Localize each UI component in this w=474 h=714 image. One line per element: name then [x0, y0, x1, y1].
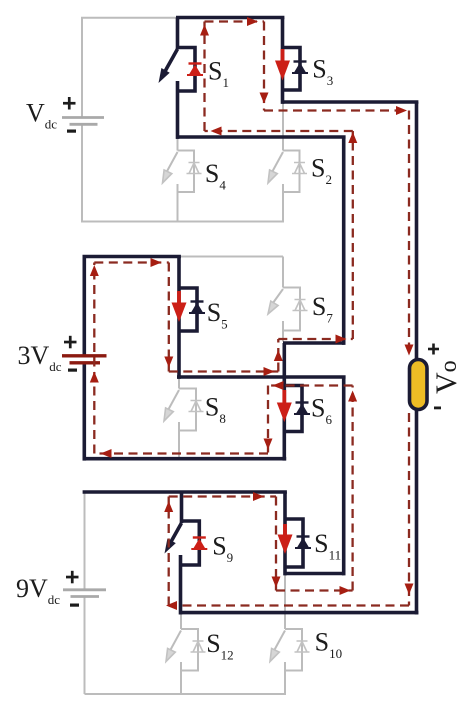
wire battery Vdc positive rail (gray) — [82, 18, 178, 118]
current path: leftwards above A3 — [169, 604, 409, 606]
current path: down right rail to load — [408, 111, 410, 357]
diode D9 of S9 (red, conducting) — [191, 538, 207, 550]
transistor S3 leg — [281, 18, 285, 104]
current path: up through battery 3Vdc — [93, 263, 95, 454]
arrow up beside S9 — [164, 501, 173, 512]
arrow down between S1 and S3 — [260, 93, 269, 104]
conduction arrow on S11 (red, downward) — [278, 524, 293, 554]
load minus sign — [434, 407, 441, 410]
diode D6 of S6 (navy) — [294, 403, 310, 415]
arrow right on A2 — [264, 367, 275, 376]
wire battery 9Vdc positive rail (gray) — [84, 492, 86, 590]
current path: up beside S1 — [203, 22, 205, 132]
S12 diode (gray) — [191, 641, 206, 652]
conduction arrow on S3 (red, downward) — [275, 49, 290, 81]
arrow down below load — [405, 584, 414, 595]
transistor S1 blade — [164, 49, 178, 74]
battery 9Vdc minus sign — [70, 604, 79, 607]
battery Vdc plus sign — [63, 97, 76, 110]
battery 3Vdc plus sign — [64, 336, 77, 349]
arrow up above bridge2 bottom corner — [90, 265, 99, 276]
transistor S9 leg upper — [180, 492, 184, 523]
conduction arrow on S6 (red, downward) — [277, 390, 292, 422]
wire battery 3Vdc negative rail — [83, 363, 87, 461]
wire bridge3 output A3 to load — [180, 611, 419, 615]
arrow up on cascade V1 — [348, 132, 357, 143]
current path: below load down — [408, 413, 410, 606]
current path: down between S1 and S3 — [263, 22, 265, 111]
wire bridge2 top rail (navy) — [83, 255, 181, 259]
diode D11 of S11 (navy) — [295, 537, 311, 549]
transistor S10 blade — [273, 631, 285, 653]
arrow down beside S5 — [164, 357, 173, 368]
arrow left on bridge2 bottom — [101, 449, 112, 458]
current path: along S3 output wire — [264, 109, 409, 111]
transistor S4 leg upper — [177, 138, 179, 151]
transistor S2 leg lower — [282, 184, 284, 222]
current path: up beside S9 — [168, 497, 170, 606]
current path: leftwards above A2 toward S6 — [268, 384, 353, 386]
transistor S8 stubs and bar — [179, 389, 196, 431]
current path: up cascade V2 — [351, 386, 353, 591]
diode D3 of S3 (navy) — [292, 62, 308, 74]
current path: down beside S6 — [267, 386, 269, 454]
S8 diode (gray) — [189, 401, 204, 412]
S7 blade arrowhead — [268, 301, 278, 314]
transistor S12 stubs and bar — [181, 629, 198, 671]
S12 blade arrowhead — [166, 648, 175, 661]
S9 blade arrowhead (navy) — [165, 539, 176, 554]
transistor S2 stubs and bar — [283, 151, 300, 193]
wire bridge1 top rail (navy) — [176, 16, 284, 20]
transistor S10 leg upper — [284, 575, 286, 629]
transistor S12 leg lower — [180, 662, 182, 694]
arrow down above load — [405, 345, 414, 356]
diode D1 of S1 (red, conducting) — [187, 64, 203, 76]
arrow right on bridge2 top — [151, 258, 162, 267]
transistor S10 leg lower — [284, 662, 286, 694]
S2 diode (gray) — [292, 163, 307, 174]
arrow down beside S11 — [272, 577, 281, 588]
S10 diode (gray) — [295, 641, 310, 652]
wire battery 9Vdc negative rail (gray) — [84, 597, 86, 695]
transistor S9 blade — [168, 523, 182, 548]
transistor S12 blade — [169, 631, 181, 653]
wire bridge1 bottom gray rail — [81, 221, 284, 223]
transistor S6 stubs and bar — [284, 386, 302, 432]
transistor S3 stubs and bar — [283, 48, 301, 91]
transistor S8 leg upper — [178, 379, 180, 389]
S10 blade arrowhead — [270, 648, 279, 661]
transistor S10 stubs and bar — [285, 629, 302, 671]
transistor S7 leg lower — [282, 321, 284, 342]
transistor S6 leg — [282, 343, 286, 461]
current path: up cascade V1 — [352, 131, 354, 339]
transistor S1 leg upper — [176, 18, 180, 50]
diode D5 of S5 (navy) — [189, 302, 205, 314]
transistor S7 leg — [282, 257, 284, 288]
wire bridge2 gray top rail segment — [179, 256, 283, 258]
arrow left above A3 — [166, 601, 177, 610]
arrow right on bridge1 top — [247, 17, 258, 26]
transistor S5 stubs and bar — [179, 288, 197, 331]
wire bridge1 output A1 — [176, 135, 346, 139]
arrow left on A1 — [211, 127, 222, 136]
transistor S8 blade — [167, 390, 179, 412]
current path: B2 rightwards — [278, 338, 353, 340]
transistor S1 stubs and bar — [177, 48, 196, 92]
transistor S4 blade — [166, 152, 178, 174]
transistor S9 leg lower — [179, 555, 183, 615]
battery Vdc minus sign — [67, 130, 76, 133]
transistor S4 leg lower — [177, 184, 179, 222]
wire right rail lower (load to A3) — [415, 409, 419, 615]
current path: up to B2 — [277, 339, 279, 372]
load Vo capsule — [410, 360, 428, 410]
current path: bridge2 top rightwards — [94, 261, 169, 263]
transistor S7 blade — [272, 289, 284, 305]
S8 blade arrowhead — [164, 408, 173, 421]
arrow right on S3 output wire — [396, 106, 407, 115]
S2 blade arrowhead — [268, 170, 277, 183]
S4 blade arrowhead (gray open) — [163, 170, 172, 183]
battery 9Vdc plates (gray) — [63, 590, 106, 597]
arrow up on cascade V2 — [348, 391, 357, 402]
battery 3Vdc minus sign — [68, 369, 77, 372]
transistor S2 leg — [282, 104, 284, 151]
arrow up below battery 3Vdc — [90, 372, 99, 383]
current path: A1 leftwards to S1 — [205, 130, 353, 132]
wire bridge3 B3 — [285, 572, 344, 576]
arrow up beside S1 — [200, 25, 209, 36]
wire right rail upper (to load) — [415, 102, 419, 361]
transistor S11 stubs and bar — [285, 519, 303, 567]
wire battery Vdc negative rail (gray) — [81, 124, 83, 221]
S1 blade arrowhead (navy) — [159, 68, 170, 83]
transistor S4 stubs and bar — [178, 151, 195, 193]
wire bridge2 bottom rail — [83, 457, 287, 461]
wire battery 3Vdc positive rail — [83, 257, 87, 356]
current path: down beside S11 — [275, 497, 277, 591]
wire bridge2 output A2 — [177, 375, 346, 379]
arrow right on B2 — [336, 335, 347, 344]
transistor S12 leg upper — [180, 613, 182, 629]
S7 diode (gray) — [293, 300, 308, 311]
wire cascade V1 (A1 to B2) — [342, 137, 346, 345]
battery 3Vdc plates (dark red) — [62, 356, 107, 363]
arrow down beside S6 — [264, 439, 273, 450]
transistor S5 leg — [177, 257, 181, 379]
arrow right on B3 — [340, 586, 351, 595]
wire bridge3 bottom gray rail — [85, 693, 287, 695]
wire bridge2 B2 — [283, 341, 344, 345]
transistor S1 leg lower — [176, 81, 180, 139]
transistor S11 leg — [283, 492, 287, 575]
S4 diode (gray) — [187, 163, 202, 174]
wire S3 output to right rail — [283, 100, 419, 104]
current path: top of bridge1 — [205, 20, 265, 22]
battery 9Vdc plus sign — [66, 571, 79, 584]
current path: down beside S5 — [168, 263, 170, 372]
conduction arrow on S5 (red, downward) — [172, 291, 187, 322]
battery Vdc plates (gray) — [62, 118, 104, 125]
wire cascade V2 (A2 to B3) — [342, 377, 346, 575]
arrow right on bridge3 top — [253, 492, 264, 501]
current path: A2 rightwards — [169, 370, 278, 372]
arrow left above A2 — [273, 381, 284, 390]
transistor S9 stubs and bar — [181, 521, 200, 565]
transistor S8 leg lower — [178, 422, 180, 459]
current path: bridge2 bottom leftwards — [94, 452, 268, 454]
current path: bridge3 top — [169, 495, 276, 497]
load plus sign — [428, 344, 439, 355]
transistor S2 blade — [271, 152, 283, 174]
arrow up toward B2 — [274, 350, 283, 361]
wire bridge3 top rail — [83, 490, 287, 494]
current path: B3 rightwards — [276, 589, 353, 591]
transistor S7 stubs and bar — [283, 288, 300, 331]
